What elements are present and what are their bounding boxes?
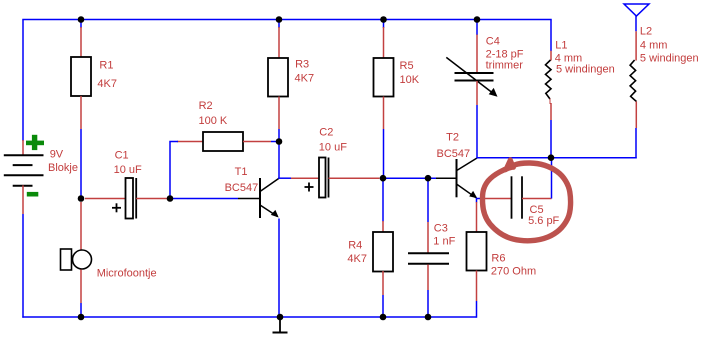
svg-text:R1: R1 xyxy=(99,60,113,72)
svg-text:C2: C2 xyxy=(319,126,333,138)
junction dot top rail R5 xyxy=(380,16,387,23)
svg-text:T2: T2 xyxy=(446,132,459,144)
svg-text:BC547: BC547 xyxy=(437,148,471,160)
junction dot top rail R3 xyxy=(276,16,283,23)
wire R1 bottom to C1 node xyxy=(80,129,82,199)
junction dot C1 right node xyxy=(167,195,174,202)
svg-text:10K: 10K xyxy=(400,74,420,86)
svg-text:5 windingen: 5 windingen xyxy=(556,64,615,76)
svg-text:R5: R5 xyxy=(400,60,414,72)
svg-text:2-18 pF: 2-18 pF xyxy=(486,48,524,60)
svg-text:9V: 9V xyxy=(50,149,64,161)
wire top supply rail xyxy=(22,19,551,21)
svg-text:4K7: 4K7 xyxy=(347,253,367,265)
svg-text:5.6 pF: 5.6 pF xyxy=(528,215,559,227)
wire tank rail T2 collector to L2 xyxy=(477,157,637,159)
junction dot bottom rail R4 xyxy=(380,314,387,321)
inductor L1 xyxy=(546,20,552,158)
transistor T2 BC547 xyxy=(436,158,477,198)
antenna xyxy=(624,4,649,31)
svg-text:L2: L2 xyxy=(640,26,652,38)
svg-text:R4: R4 xyxy=(348,240,362,252)
transistor T1 BC547 xyxy=(238,178,279,218)
resistor R5 xyxy=(374,20,394,130)
svg-text:BC547: BC547 xyxy=(225,182,259,194)
wire R2 left corner down to C1 node xyxy=(170,142,178,199)
resistor R6 xyxy=(467,202,487,318)
svg-text:1 nF: 1 nF xyxy=(433,236,455,248)
svg-text:100 K: 100 K xyxy=(199,115,228,127)
inductor L2 xyxy=(630,31,636,158)
svg-text:270 Ohm: 270 Ohm xyxy=(491,265,536,277)
microphone xyxy=(61,202,92,317)
wire C1 to T1 base xyxy=(170,198,238,200)
capacitor C2 xyxy=(291,158,380,198)
svg-text:Blokje: Blokje xyxy=(48,162,78,174)
capacitor C5 xyxy=(481,176,552,218)
junction dot C3 top node xyxy=(425,175,432,182)
resistor R1 xyxy=(71,20,91,130)
wire C5 right up to tank rail xyxy=(551,158,553,199)
wire T2 emitter corner xyxy=(477,199,482,203)
svg-text:5 windingen: 5 windingen xyxy=(640,53,699,65)
capacitor C1 xyxy=(85,178,167,219)
junction dot top rail C4 xyxy=(474,16,481,23)
wire T1 collector corner to C2 xyxy=(278,177,291,179)
svg-text:R6: R6 xyxy=(491,253,505,265)
svg-text:T1: T1 xyxy=(235,166,248,178)
wire left rail down to battery xyxy=(22,20,24,142)
wire R2 right to R3 branch xyxy=(271,141,279,143)
junction dot R4 top node xyxy=(380,175,387,182)
wire R5 bottom to middle node xyxy=(383,129,385,178)
junction dot C1 left node xyxy=(78,195,85,202)
svg-text:4K7: 4K7 xyxy=(295,73,315,85)
junction dot bottom rail C3 xyxy=(425,314,432,321)
svg-text:C4: C4 xyxy=(486,35,500,47)
capacitor C4 trimmer xyxy=(446,20,497,106)
capacitor C3 xyxy=(408,178,449,317)
svg-text:Microfoontje: Microfoontje xyxy=(97,267,157,279)
junction dot tank rail L1 xyxy=(548,154,555,161)
battery 9V Blokje xyxy=(4,135,44,214)
svg-text:R3: R3 xyxy=(295,59,309,71)
hand-drawn red circle around C5 xyxy=(482,163,570,241)
resistor R4 xyxy=(373,178,393,317)
svg-text:10 uF: 10 uF xyxy=(114,164,142,176)
svg-text:C3: C3 xyxy=(434,223,448,235)
junction dot bottom rail mic xyxy=(78,314,85,321)
junction dot bottom rail ground xyxy=(277,314,284,321)
svg-text:4K7: 4K7 xyxy=(97,78,117,90)
wire middle node to T2 base xyxy=(383,177,436,179)
ground xyxy=(273,317,288,333)
svg-text:10 uF: 10 uF xyxy=(319,142,347,154)
wire T1 emitter to ground rail xyxy=(278,219,280,318)
resistor R3 xyxy=(268,20,288,130)
wire bottom ground rail xyxy=(22,316,476,318)
svg-text:trimmer: trimmer xyxy=(486,60,524,72)
svg-text:4 mm: 4 mm xyxy=(640,40,668,52)
svg-text:C1: C1 xyxy=(115,150,129,162)
junction dot R2 right node xyxy=(276,138,283,145)
wire battery to bottom rail xyxy=(22,214,24,318)
junction dot top rail R1 xyxy=(78,16,85,23)
resistor R2 xyxy=(177,132,271,151)
wire C4 to T2 collector xyxy=(476,105,478,158)
wire R3 bottom through R2 node to T1 collector xyxy=(278,129,280,178)
svg-text:L1: L1 xyxy=(555,40,567,52)
svg-text:R2: R2 xyxy=(199,100,213,112)
